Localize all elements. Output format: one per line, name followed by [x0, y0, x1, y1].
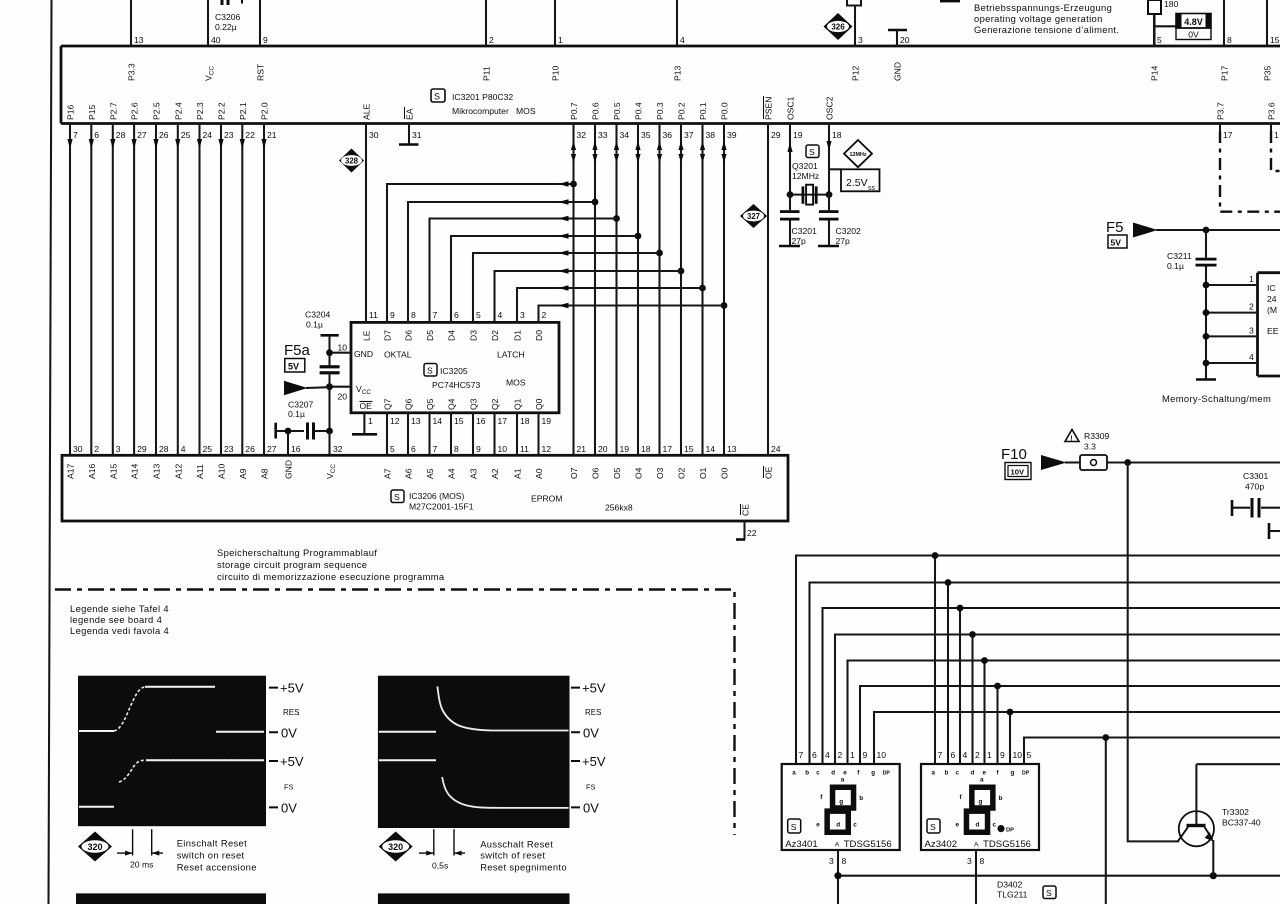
wire P0.4 (pin 35) bus to EPROM O4: [635, 124, 640, 456]
junction dot: [699, 285, 706, 292]
svg-text:switch on reset: switch on reset: [177, 850, 245, 861]
svg-text:DP: DP: [1022, 771, 1030, 777]
pin number 34: [620, 130, 630, 140]
svg-text:P35: P35: [1263, 65, 1273, 81]
7-segment display Az3402 box: [921, 764, 1039, 850]
svg-text:5: 5: [1157, 35, 1162, 45]
latch pin number 12: [390, 416, 400, 426]
svg-text:2.5V: 2.5V: [846, 177, 868, 189]
svg-text:12MHz: 12MHz: [792, 171, 819, 181]
pin number 32: [577, 130, 587, 140]
pin label RST: [256, 63, 266, 81]
svg-text:A16: A16: [87, 463, 97, 479]
svg-text:327: 327: [747, 212, 760, 221]
svg-text:10: 10: [338, 343, 348, 353]
svg-text:D3: D3: [469, 330, 479, 341]
svg-text:1: 1: [1274, 130, 1279, 140]
wire R3309 to junction: [1107, 461, 1280, 463]
pin number 28: [116, 130, 126, 140]
wire segment c bus: [823, 608, 1280, 764]
svg-text:P0.7: P0.7: [569, 102, 579, 120]
svg-text:12: 12: [542, 444, 552, 454]
EPROM pin label A9: [238, 468, 248, 479]
svg-text:25: 25: [203, 444, 213, 454]
capacitor C3201: [779, 195, 800, 246]
Az3402 pin number 4: [963, 750, 968, 760]
EPROM pin number 19: [620, 444, 630, 454]
latch pin 20 Vcc wire: [330, 386, 352, 388]
svg-text:11: 11: [369, 310, 378, 320]
wire pin 20 (GND) top of IC3201: [896, 30, 898, 46]
latch pin number 15: [454, 416, 464, 426]
wire P1.6 (pin 7) to EPROM A17: [67, 124, 72, 456]
latch label Q1: [513, 398, 523, 410]
Az3401 type label: [785, 839, 892, 850]
transistor Tr3302: [1178, 764, 1215, 876]
wire EA (pin 31) stub: [408, 124, 410, 145]
junction node F10 rail: [1124, 459, 1131, 466]
junction dot: [570, 181, 577, 188]
pin label OSC2: [825, 96, 835, 120]
EPROM pin number 7: [433, 444, 438, 454]
svg-text:e: e: [843, 770, 847, 777]
EPROM pin number 18: [641, 444, 651, 454]
svg-text:29: 29: [771, 130, 781, 140]
EPROM label IC3206 M27C2001: [409, 491, 474, 512]
capacitor C3202 value: [836, 226, 862, 246]
voltage box 0V: [1176, 28, 1211, 40]
svg-text:TDSG5156: TDSG5156: [983, 839, 1031, 850]
svg-text:F5a: F5a: [284, 342, 311, 359]
svg-text:a: a: [792, 770, 796, 777]
EPROM pin number 9: [476, 444, 481, 454]
capacitor C3211 value: [1167, 251, 1192, 271]
wire pin 40 (Vcc) top of IC3201: [207, 0, 209, 46]
svg-text:c: c: [956, 770, 960, 777]
svg-text:P2.2: P2.2: [217, 102, 227, 120]
wire EEPROM pin 2: [1203, 309, 1258, 316]
svg-text:30: 30: [73, 444, 83, 454]
pin label P2.6: [130, 102, 140, 120]
wire OSC2 pin 18: [826, 124, 831, 195]
EPROM pin label OE (overline): [764, 466, 774, 479]
svg-text:13: 13: [411, 416, 421, 426]
svg-text:RES: RES: [585, 708, 601, 717]
wire Az3402 segment b drop: [945, 579, 952, 764]
svg-text:EPROM: EPROM: [531, 494, 563, 504]
svg-text:17: 17: [1223, 130, 1233, 140]
Az3401 pin number 4: [825, 750, 830, 760]
pin number 35: [641, 130, 651, 140]
EPROM pin 22 stub: [736, 521, 745, 540]
EPROM pin label O7: [569, 467, 579, 479]
svg-text:g: g: [1011, 770, 1015, 777]
svg-text:TLG211: TLG211: [997, 890, 1028, 900]
voltage box 5V: [1108, 235, 1127, 248]
wire Az3402 segment f drop: [994, 683, 1001, 764]
svg-text:Q2: Q2: [490, 398, 500, 410]
junction node: [326, 428, 333, 435]
EPROM pin number 24: [771, 444, 781, 454]
pin number 30: [369, 130, 379, 140]
latch label Q0: [534, 398, 544, 410]
latch label Q4: [447, 398, 457, 410]
pin label P2.3: [195, 102, 205, 120]
svg-text:EE: EE: [1267, 326, 1279, 336]
svg-text:D6: D6: [404, 330, 414, 341]
svg-text:1: 1: [368, 416, 373, 426]
EPROM pin label O2: [677, 467, 687, 479]
svg-text:27: 27: [137, 130, 147, 140]
latch pin number 7: [433, 310, 438, 320]
diamond 327: [740, 204, 767, 228]
svg-text:OE: OE: [360, 401, 373, 411]
capacitor C3207 plates: [306, 423, 315, 440]
svg-text:O0: O0: [720, 467, 730, 479]
svg-text:P2.4: P2.4: [173, 102, 183, 120]
capacitor C3202: [818, 195, 839, 246]
svg-text:7: 7: [73, 130, 78, 140]
capacitor C3201 value: [792, 226, 818, 246]
wire pin 2 (P1.1) top of IC3201: [485, 0, 487, 46]
svg-text:0V: 0V: [583, 726, 599, 741]
svg-text:24: 24: [1267, 294, 1277, 304]
svg-text:27: 27: [267, 444, 277, 454]
EPROM pin number 17: [663, 444, 673, 454]
svg-text:P2.3: P2.3: [195, 102, 205, 120]
latch label D0: [534, 330, 544, 341]
photo 1 level ticks: [269, 688, 278, 808]
svg-text:Q0: Q0: [534, 398, 544, 410]
svg-text:P0.5: P0.5: [612, 102, 622, 120]
wire pin 8 (P1.7) top of IC3201: [1223, 0, 1225, 46]
capacitor C3301 value: [1243, 471, 1269, 492]
pin number 7: [73, 130, 78, 140]
latch label D3: [469, 330, 479, 341]
svg-text:O6: O6: [591, 467, 601, 479]
svg-text:Q7: Q7: [383, 398, 393, 410]
pin label EA (overline): [405, 107, 415, 120]
svg-text:6: 6: [454, 310, 459, 320]
pin number 19: [793, 130, 803, 140]
pin number 3: [1249, 325, 1254, 335]
svg-text:(M: (M: [1267, 305, 1277, 315]
pin number 1: [1249, 274, 1254, 284]
svg-text:0,5s: 0,5s: [432, 861, 448, 871]
svg-text:!: !: [1070, 436, 1072, 443]
capacitor C3206 value label: [215, 12, 241, 32]
pin number 13: [134, 35, 144, 45]
pin number 36: [663, 130, 673, 140]
Az3401 digit segment labels: [816, 777, 863, 829]
svg-text:6: 6: [94, 130, 99, 140]
pin number 33: [598, 130, 608, 140]
latch label Q3: [469, 398, 479, 410]
svg-text:switch of reset: switch of reset: [480, 850, 545, 861]
EPROM pin label A5: [425, 468, 435, 479]
pin number 10: [338, 343, 348, 353]
svg-text:20: 20: [338, 392, 348, 402]
wire P0.7 (pin 32) bus to EPROM O7: [571, 124, 576, 456]
wire Az3402 segment a drop: [932, 552, 939, 764]
wire Az3402 segment g drop: [1007, 709, 1014, 764]
svg-text:FS: FS: [586, 783, 596, 792]
diamond 320 (photo 1): [78, 832, 112, 862]
wire P2.3 (pin 24) to EPROM A11: [197, 124, 202, 456]
svg-text:C3201: C3201: [792, 226, 818, 236]
svg-text:32: 32: [577, 130, 587, 140]
Az3401 digit 8: [827, 787, 853, 832]
common cathode bus wire: [837, 875, 1280, 877]
pin number 18: [832, 130, 842, 140]
svg-text:320: 320: [388, 842, 403, 852]
svg-text:0V: 0V: [281, 801, 297, 816]
pin label P0.3: [655, 102, 665, 120]
EPROM pin number 6: [411, 444, 416, 454]
latch label D6: [404, 330, 414, 341]
junction node OSC2-crystal: [826, 191, 833, 198]
svg-text:0.1µ: 0.1µ: [288, 409, 305, 419]
EPROM pin label A1: [513, 468, 523, 479]
latch pin number 5: [476, 310, 481, 320]
svg-text:6: 6: [951, 750, 956, 760]
svg-text:22: 22: [747, 528, 757, 538]
svg-text:25: 25: [181, 130, 191, 140]
wire P2.4 (pin 25) to EPROM A12: [175, 124, 180, 456]
svg-text:S: S: [434, 92, 440, 102]
pin number 29: [771, 130, 781, 140]
svg-text:DP: DP: [1006, 828, 1014, 834]
wire latch Q1 to EPROM A1: [516, 413, 518, 456]
EEPROM internal text (cut): [1267, 283, 1279, 336]
svg-text:18: 18: [832, 130, 842, 140]
svg-text:PC74HC573: PC74HC573: [432, 380, 480, 390]
Az3401 pin number 10: [877, 750, 887, 760]
svg-text:3: 3: [967, 856, 972, 866]
svg-text:8: 8: [454, 444, 459, 454]
svg-text:O1: O1: [698, 467, 708, 479]
voltage box 2.5Vss: [841, 169, 880, 192]
junction node Vcc: [326, 383, 333, 390]
svg-text:ALE: ALE: [362, 103, 372, 120]
svg-text:Mikrocomputer MOS: Mikrocomputer MOS: [452, 106, 536, 116]
svg-text:1: 1: [1249, 274, 1254, 284]
svg-text:O3: O3: [655, 467, 665, 479]
svg-text:A1: A1: [513, 468, 523, 479]
svg-text:S: S: [809, 147, 815, 157]
latch pin number 19: [542, 416, 552, 426]
latch pin 10 GND wire: [330, 352, 352, 354]
svg-text:C3301: C3301: [1243, 471, 1269, 481]
pin number 39: [727, 130, 737, 140]
capacitor C3206 symbol (cut at top): [221, 0, 244, 5]
EPROM pin number 4: [181, 444, 186, 454]
crystal Q3201 label: [792, 161, 819, 181]
text Betriebsspannungs-Erzeugung: [974, 2, 1119, 35]
pin label P1.5: [87, 104, 97, 120]
svg-text:27p: 27p: [836, 236, 851, 246]
pin label P2.7: [108, 102, 118, 120]
wire Az3402 common pins 3|8: [975, 850, 977, 904]
EPROM pin number 27: [267, 444, 277, 454]
wire pin 1 (P1.0) top of IC3201: [554, 0, 556, 46]
wire GND to EPROM pin 16: [287, 431, 289, 455]
svg-text:14: 14: [706, 444, 716, 454]
diode D3402 label: [997, 880, 1028, 900]
wire latch Q6 to EPROM A6: [407, 413, 409, 456]
EPROM pin label A13: [152, 463, 162, 479]
ground symbol at pin 20: [888, 30, 907, 46]
svg-text:P11: P11: [482, 66, 492, 81]
svg-text:10: 10: [877, 750, 887, 760]
svg-text:P0.1: P0.1: [698, 102, 708, 120]
capacitor C3204 value: [305, 310, 331, 330]
svg-text:13: 13: [134, 35, 144, 45]
dimension 20 ms: [117, 829, 163, 869]
svg-text:GND: GND: [354, 349, 373, 359]
terminal bar left of C3207: [276, 423, 304, 439]
wire EEPROM pin 3: [1203, 333, 1258, 340]
latch label D5: [425, 330, 435, 341]
svg-text:4: 4: [680, 35, 685, 45]
svg-text:C3202: C3202: [836, 226, 862, 236]
svg-text:Q4: Q4: [447, 398, 457, 410]
svg-text:+5V: +5V: [582, 681, 606, 696]
supply terminal bar above C3204: [321, 335, 339, 365]
crystal Q3201 [S] box: [806, 145, 819, 158]
svg-text:BC337-40: BC337-40: [1222, 818, 1261, 828]
latch pin number 3: [520, 310, 525, 320]
svg-text:A3: A3: [469, 468, 479, 479]
svg-text:b: b: [805, 770, 809, 777]
junction dot: [721, 302, 728, 309]
svg-text:15: 15: [454, 416, 464, 426]
svg-text:2: 2: [542, 310, 547, 320]
svg-text:g: g: [871, 770, 875, 777]
wire latch D6 stair from P0.6: [408, 199, 595, 322]
Az3402 pin number 5: [1027, 750, 1032, 760]
photo 2 level ticks: [571, 688, 580, 808]
svg-text:g: g: [839, 799, 843, 806]
svg-text:470p: 470p: [1245, 482, 1264, 492]
pin number 31: [412, 130, 422, 140]
latch label D2: [490, 330, 500, 341]
svg-text:16: 16: [476, 416, 486, 426]
latch pin number 2: [542, 310, 547, 320]
svg-text:21: 21: [267, 130, 277, 140]
svg-text:17: 17: [498, 416, 508, 426]
wire latch D4 stair from P0.4: [451, 233, 638, 322]
svg-text:O5: O5: [612, 467, 622, 479]
svg-text:A11: A11: [195, 464, 205, 479]
svg-text:2: 2: [1249, 302, 1254, 312]
voltage box 5V: [285, 359, 305, 373]
svg-text:TDSG5156: TDSG5156: [844, 839, 892, 850]
svg-text:O7: O7: [569, 467, 579, 479]
svg-text:D4: D4: [447, 330, 457, 341]
pin label P1.1: [482, 66, 492, 81]
EPROM pin label A7: [383, 468, 393, 479]
Az3402 pin number 2: [975, 750, 980, 760]
EPROM pin number 2: [94, 444, 99, 454]
voltage box 4.8V: [1176, 14, 1211, 29]
pin number 16: [1274, 130, 1279, 140]
wire P0.0 (pin 39) bus to EPROM O0: [721, 124, 726, 456]
Az3401 [S] box: [788, 819, 801, 833]
transistor label: [1222, 807, 1261, 828]
svg-text:RES: RES: [283, 708, 299, 717]
svg-text:5V: 5V: [1111, 238, 1122, 248]
svg-text:C3206: C3206: [215, 12, 241, 22]
resistor R (180) top right: [1148, 0, 1179, 14]
caption Speicherschaltung: [217, 547, 445, 582]
svg-text:Legenda vedi favola 4: Legenda vedi favola 4: [70, 625, 169, 636]
svg-text:F5: F5: [1106, 219, 1124, 236]
wire P0.2 (pin 37) bus to EPROM O2: [678, 124, 683, 456]
wire latch Q2 to EPROM A2: [493, 413, 495, 456]
svg-text:8: 8: [1227, 35, 1232, 45]
svg-text:e: e: [816, 822, 820, 829]
capacitor C3204 plates: [320, 365, 340, 374]
wire P0.3 (pin 36) bus to EPROM O3: [657, 124, 662, 456]
svg-text:0.22µ: 0.22µ: [215, 22, 237, 32]
pin label P3.5: [1263, 65, 1273, 81]
svg-text:GND: GND: [893, 62, 903, 81]
wire P2.0 (pin 21) to EPROM A8: [261, 124, 266, 456]
diamond 320 (photo 2): [379, 832, 413, 862]
svg-text:16: 16: [291, 444, 301, 454]
latch pin number 17: [498, 416, 508, 426]
svg-text:31: 31: [412, 130, 422, 140]
Az3401 pin number 2: [838, 750, 843, 760]
Az3401 pin number 7: [799, 750, 804, 760]
junction node F5: [1203, 227, 1210, 234]
svg-text:256kx8: 256kx8: [605, 503, 633, 513]
wire transistor base rail: [1196, 763, 1280, 765]
svg-text:0V: 0V: [1188, 30, 1199, 40]
svg-text:34: 34: [620, 130, 630, 140]
svg-text:A15: A15: [108, 463, 118, 479]
svg-text:D3402: D3402: [997, 880, 1023, 890]
wire latch D2 stair from P0.2: [495, 268, 682, 322]
svg-text:1: 1: [558, 35, 563, 45]
svg-text:O4: O4: [634, 467, 644, 479]
wire P2.5 (pin 26) to EPROM A13: [153, 124, 158, 456]
svg-text:30: 30: [369, 130, 379, 140]
Az3402 DP dot: [997, 825, 1014, 834]
svg-text:b: b: [859, 795, 863, 802]
wire P3.7 pin 17 dashed route: [1220, 124, 1280, 212]
wire C3207 to Vcc vertical: [315, 430, 330, 432]
svg-text:LE: LE: [362, 330, 372, 341]
svg-text:0.1µ: 0.1µ: [1167, 261, 1184, 271]
svg-text:OSC2: OSC2: [825, 96, 835, 120]
svg-text:e: e: [956, 822, 960, 829]
pin number 20: [338, 392, 348, 402]
EPROM pin label O6: [591, 467, 601, 479]
svg-text:CE: CE: [741, 504, 751, 516]
svg-text:C3204: C3204: [305, 310, 331, 320]
svg-text:D1: D1: [513, 330, 523, 341]
svg-text:MOS: MOS: [506, 378, 526, 388]
svg-text:5V: 5V: [288, 362, 299, 372]
oscillogram photo 1: [78, 676, 266, 827]
svg-text:RST: RST: [256, 63, 266, 81]
svg-text:storage circuit program sequen: storage circuit program sequence: [217, 559, 367, 570]
junction node at transistor emitter: [1210, 872, 1217, 879]
wire ALE (pin 30) to latch LE: [365, 124, 367, 323]
EPROM pin number 11: [520, 444, 529, 454]
